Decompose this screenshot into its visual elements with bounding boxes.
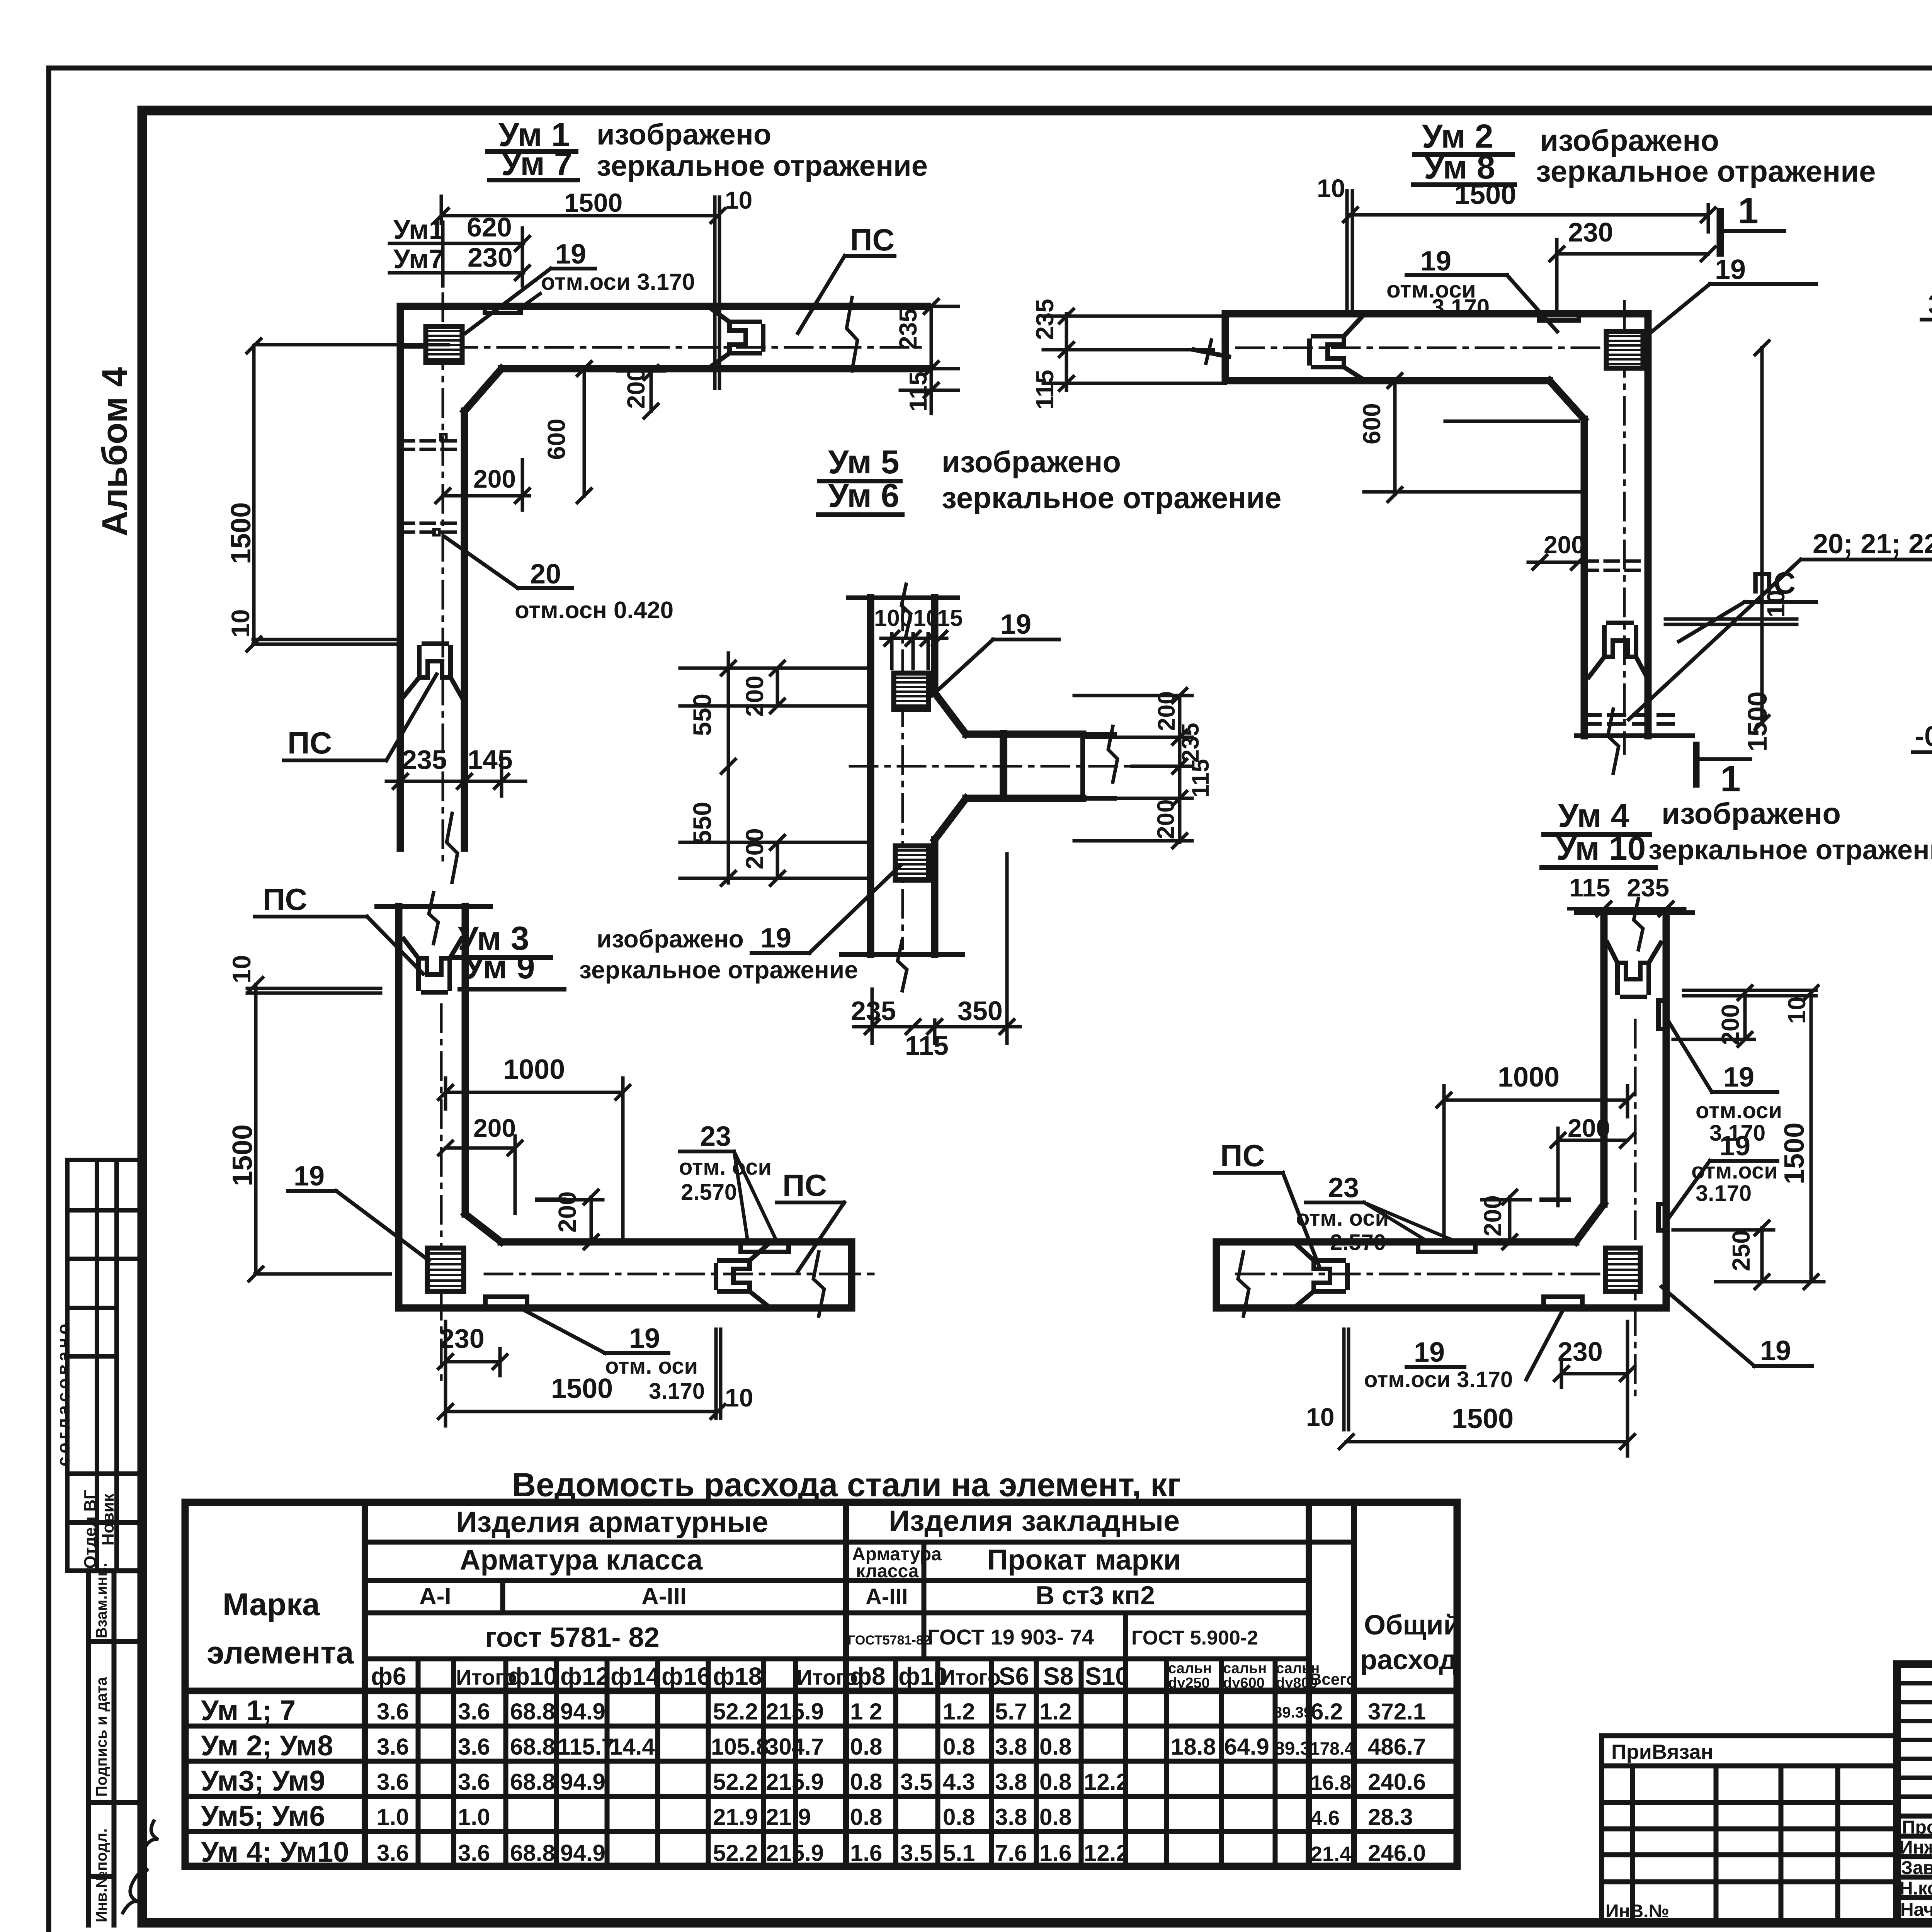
svg-text:Изделия арматурные: Изделия арматурные <box>456 1506 768 1539</box>
Um5 centerline horizontal (through branch) <box>850 765 1182 768</box>
svg-text:550: 550 <box>688 694 716 736</box>
svg-text:Ум1: Ум1 <box>393 214 444 245</box>
table data values row 4 <box>377 1804 1413 1830</box>
svg-text:230: 230 <box>1568 217 1613 247</box>
Um3 wall outline <box>399 906 852 1308</box>
svg-text:3.5: 3.5 <box>900 1840 932 1866</box>
svg-text:10: 10 <box>725 1383 753 1412</box>
svg-text:19: 19 <box>1723 1062 1754 1093</box>
svg-text:1.6: 1.6 <box>850 1840 882 1866</box>
svg-text:ф10: ф10 <box>508 1662 557 1690</box>
svg-text:А-I: А-I <box>419 1583 451 1610</box>
svg-text:Всего: Всего <box>1310 1670 1356 1688</box>
svg-text:2.570: 2.570 <box>681 1180 737 1205</box>
Um1 header labels <box>498 116 928 182</box>
svg-text:4.3: 4.3 <box>943 1769 975 1795</box>
svg-text:3.800: 3.800 <box>1928 289 1932 320</box>
svg-text:А-III: А-III <box>866 1584 908 1609</box>
svg-text:зеркальное отражение: зеркальное отражение <box>597 150 928 182</box>
title block role and name texts <box>1900 1817 1932 1920</box>
svg-text:1.2: 1.2 <box>1039 1699 1071 1725</box>
svg-text:S10: S10 <box>1085 1662 1129 1690</box>
svg-text:105.8: 105.8 <box>711 1734 769 1760</box>
svg-text:115: 115 <box>1569 873 1610 902</box>
svg-text:ф6: ф6 <box>371 1662 406 1690</box>
Um2 dim 10 right lower (gap to PS piece) <box>1665 619 1797 624</box>
Um2 centerline horizontal <box>1236 347 1646 349</box>
svg-text:28.3: 28.3 <box>1368 1804 1413 1830</box>
Um3 embed plate on bottom edge <box>485 1297 527 1307</box>
table header dividers <box>503 1542 1126 1659</box>
Um5 header labels <box>828 444 1282 515</box>
table outer box <box>185 1502 1457 1866</box>
svg-text:21.4: 21.4 <box>1311 1842 1351 1866</box>
Um5 anchor plate lower (hatched) <box>895 846 929 880</box>
svg-text:Подпись и дата: Подпись и дата <box>93 1677 110 1797</box>
Um1 joint square mark 2 <box>434 529 439 535</box>
svg-text:1.0: 1.0 <box>377 1804 409 1830</box>
Um2 construction joint dashes (lower, pointed by 20;21;22) <box>1584 715 1673 724</box>
svg-text:Новик: Новик <box>99 1493 117 1546</box>
svg-text:21.9: 21.9 <box>766 1804 811 1830</box>
Um1 stacked dims Um1 620 / Um7 230 <box>393 212 513 274</box>
svg-text:Отдел ВГ: Отдел ВГ <box>81 1490 100 1569</box>
svg-text:3.6: 3.6 <box>458 1840 490 1866</box>
svg-text:94.9: 94.9 <box>560 1699 605 1725</box>
svg-text:Ум 1; 7: Ум 1; 7 <box>201 1694 296 1726</box>
svg-text:100: 100 <box>874 605 913 631</box>
Um1 anchor plate (hatched) <box>426 327 462 362</box>
svg-text:-0.780: -0.780 <box>1915 721 1932 752</box>
svg-text:3.8: 3.8 <box>995 1804 1027 1830</box>
svg-text:115: 115 <box>1187 759 1214 798</box>
Um4 vertical ext from 1000 dim <box>1442 1117 1446 1242</box>
svg-text:304.7: 304.7 <box>766 1734 824 1760</box>
svg-text:изображено: изображено <box>1662 796 1841 830</box>
Um4 dim 115 235 top <box>1569 873 1669 902</box>
Um3 PS slot detail right <box>716 1243 769 1307</box>
svg-text:класса: класса <box>856 1561 919 1582</box>
svg-text:235: 235 <box>894 308 922 350</box>
svg-text:1500: 1500 <box>1454 179 1516 210</box>
svg-text:зеркальное отражение: зеркальное отражение <box>942 481 1282 515</box>
svg-text:зеркальное отражение: зеркальное отражение <box>1648 835 1932 866</box>
Um1 dim 1500 top <box>434 196 725 223</box>
svg-text:3.170: 3.170 <box>1696 1181 1752 1206</box>
svg-text:246.0: 246.0 <box>1368 1840 1426 1866</box>
svg-text:0.8: 0.8 <box>943 1804 975 1830</box>
Um1 PS wall break mark <box>847 298 857 371</box>
svg-text:200: 200 <box>1153 799 1179 839</box>
Um4 header labels <box>1556 796 1932 867</box>
svg-text:отм.оси 3.170: отм.оси 3.170 <box>541 269 695 295</box>
svg-text:Н.контр.: Н.контр. <box>1900 1878 1932 1899</box>
svg-text:изображено: изображено <box>1540 123 1719 157</box>
Um3 centerline horizontal <box>485 1273 873 1276</box>
svg-text:1000: 1000 <box>503 1054 565 1085</box>
svg-text:0.8: 0.8 <box>943 1734 975 1760</box>
svg-text:3.5: 3.5 <box>900 1769 932 1795</box>
svg-text:сальн: сальн <box>1223 1660 1267 1677</box>
Um4 top cut extension line <box>1577 910 1692 915</box>
Um2 lower funnel slot detail <box>1589 623 1647 677</box>
table row label texts <box>201 1694 349 1868</box>
svg-text:600: 600 <box>1358 403 1386 444</box>
svg-text:14.4: 14.4 <box>610 1734 655 1760</box>
Um4 gap 10 marker bottom-left (double vline) <box>1344 1329 1349 1430</box>
svg-text:зеркальное отражение: зеркальное отражение <box>579 956 858 984</box>
Um5 bottom cut extension <box>841 952 963 957</box>
Um5 top cut extension <box>848 595 957 600</box>
svg-text:Марка: Марка <box>223 1587 320 1622</box>
svg-text:dy600: dy600 <box>1223 1675 1265 1691</box>
svg-text:0.8: 0.8 <box>1039 1734 1071 1760</box>
Um4 section mark 1 (bottom) <box>1693 745 1700 784</box>
svg-text:52.2: 52.2 <box>713 1769 758 1795</box>
Um1 element gap 10 double line (wall right end) <box>715 284 719 388</box>
svg-text:200: 200 <box>1568 1114 1610 1142</box>
svg-text:изображено: изображено <box>942 445 1121 479</box>
svg-text:1500: 1500 <box>564 188 622 218</box>
Um2 PS slot detail (left) <box>1310 315 1364 380</box>
svg-text:1.2: 1.2 <box>943 1699 975 1725</box>
svg-text:178.4: 178.4 <box>1310 1738 1355 1759</box>
svg-text:18.8: 18.8 <box>1171 1734 1216 1760</box>
svg-text:Ум 4: Ум 4 <box>1558 797 1629 834</box>
svg-text:Ум3; Ум9: Ум3; Ум9 <box>201 1765 325 1797</box>
svg-text:94.9: 94.9 <box>560 1840 605 1866</box>
svg-text:68.8: 68.8 <box>510 1734 555 1760</box>
svg-text:20; 21; 22: 20; 21; 22 <box>1813 529 1932 560</box>
svg-text:ИнВ.№: ИнВ.№ <box>1605 1901 1669 1922</box>
svg-text:200: 200 <box>741 828 769 869</box>
svg-text:64.9: 64.9 <box>1224 1734 1269 1760</box>
Um1 lower PS gap 10 double line <box>253 639 398 644</box>
Um4 anchor plate (hatched) <box>1605 1248 1640 1291</box>
Um5 right dims 200 235 115 200 (rotated) <box>1074 689 1192 848</box>
Um1 construction joint dashes 2 <box>400 523 464 532</box>
svg-text:Взам.инв.: Взам.инв. <box>93 1563 110 1638</box>
svg-text:94.9: 94.9 <box>560 1769 605 1795</box>
svg-text:215.9: 215.9 <box>766 1699 824 1725</box>
svg-text:А-III: А-III <box>641 1583 687 1610</box>
svg-text:235: 235 <box>402 745 447 775</box>
svg-text:7.6: 7.6 <box>995 1840 1027 1866</box>
svg-text:19: 19 <box>760 923 791 954</box>
svg-text:3.8: 3.8 <box>995 1734 1027 1760</box>
Um2 construction joint dashes (upper) <box>1584 561 1648 570</box>
Um1 PS slot detail <box>709 307 763 368</box>
svg-text:10: 10 <box>913 605 939 631</box>
Um4 PS slot detail left <box>1295 1243 1347 1307</box>
svg-text:ф8: ф8 <box>850 1662 886 1690</box>
svg-text:19: 19 <box>555 239 586 270</box>
svg-text:23: 23 <box>1328 1172 1359 1203</box>
svg-text:ПС: ПС <box>782 1168 827 1202</box>
Um3 centerline vertical <box>440 1005 443 1379</box>
svg-text:1 2: 1 2 <box>850 1699 882 1725</box>
rotated signature squiggle 1105-89 <box>123 1821 158 1913</box>
svg-text:зеркальное отражение: зеркальное отражение <box>1536 154 1876 188</box>
svg-text:3.6: 3.6 <box>458 1734 490 1760</box>
svg-text:52.2: 52.2 <box>713 1840 758 1866</box>
svg-text:20: 20 <box>530 559 561 590</box>
Um5 bottom break mark <box>898 940 907 991</box>
svg-text:1: 1 <box>1720 759 1741 799</box>
Um2 bottom cut extension line <box>1577 733 1692 738</box>
svg-text:ПС: ПС <box>1751 566 1796 600</box>
svg-text:15: 15 <box>937 605 963 631</box>
Um4 embed plate on right edge lower <box>1658 1204 1666 1230</box>
svg-text:1000: 1000 <box>1498 1062 1560 1093</box>
svg-text:0.8: 0.8 <box>850 1734 882 1760</box>
svg-text:отм.оси 3.170: отм.оси 3.170 <box>1364 1367 1513 1392</box>
Um5 wall outline <box>871 598 1083 954</box>
svg-text:5.7: 5.7 <box>995 1699 1027 1725</box>
svg-text:ГОСТ 5.900-2: ГОСТ 5.900-2 <box>1131 1627 1258 1649</box>
svg-text:изображено: изображено <box>597 118 771 151</box>
svg-text:Итого: Итого <box>940 1665 1001 1689</box>
svg-text:ПС: ПС <box>1220 1138 1265 1173</box>
svg-text:S6: S6 <box>999 1662 1029 1690</box>
svg-text:3.6: 3.6 <box>377 1734 409 1760</box>
svg-text:550: 550 <box>688 802 716 844</box>
Um4 embed plate on inner top edge <box>1418 1243 1475 1252</box>
svg-text:12.2: 12.2 <box>1084 1769 1129 1795</box>
Um3 top cut extension line <box>377 904 491 909</box>
Um4 centerline horizontal <box>1236 1273 1604 1276</box>
svg-text:1500: 1500 <box>1742 691 1772 752</box>
svg-text:10: 10 <box>1317 174 1345 202</box>
svg-text:ПС: ПС <box>287 726 332 760</box>
table data values row 3 <box>377 1769 1426 1795</box>
svg-text:19: 19 <box>1719 1131 1750 1162</box>
left margin lower stamp grid (Inv N podl / Podpis i data / Vzam inv) <box>88 1571 144 1925</box>
Um5 left dims 550 550 <box>680 653 871 885</box>
svg-text:1: 1 <box>1738 190 1759 231</box>
svg-text:4.6: 4.6 <box>1311 1806 1340 1830</box>
Um5 branch end lines <box>1080 734 1085 798</box>
svg-text:68.8: 68.8 <box>510 1769 555 1795</box>
svg-text:2.570: 2.570 <box>1330 1230 1386 1255</box>
svg-text:200: 200 <box>1544 531 1585 559</box>
svg-text:10: 10 <box>1783 997 1811 1024</box>
svg-text:3.6: 3.6 <box>458 1769 490 1795</box>
svg-text:Ведомость расхода стали на эле: Ведомость расхода стали на элемент, кг <box>512 1466 1181 1503</box>
Um1 construction joint dashes 1 <box>400 441 464 449</box>
svg-text:Инж. II к.: Инж. II к. <box>1900 1837 1932 1858</box>
svg-text:гост 5781- 82: гост 5781- 82 <box>485 1622 660 1653</box>
svg-text:16.8: 16.8 <box>1311 1771 1351 1794</box>
svg-text:Ум7: Ум7 <box>393 244 444 274</box>
Um2 PS break mark (left cut) <box>1194 350 1229 357</box>
table column lines <box>418 1659 1275 1866</box>
table data values row 5 <box>377 1840 1426 1866</box>
svg-text:В ст3 кп2: В ст3 кп2 <box>1036 1581 1155 1610</box>
svg-text:5.1: 5.1 <box>943 1840 975 1866</box>
Um1 centerline vertical <box>442 294 444 862</box>
svg-text:200: 200 <box>741 675 769 717</box>
Um3 gap 10 marker right (double vline) <box>716 1329 721 1418</box>
svg-text:Арматура класса: Арматура класса <box>460 1544 703 1576</box>
Um3 upper funnel slot detail <box>404 939 461 992</box>
svg-text:200: 200 <box>1153 691 1180 731</box>
svg-text:сальн: сальн <box>1168 1660 1212 1677</box>
svg-text:Ум5; Ум6: Ум5; Ум6 <box>201 1800 325 1832</box>
Um3 top break mark <box>429 893 438 944</box>
svg-text:1500: 1500 <box>227 1124 258 1186</box>
Um4 embed plate on right edge upper <box>1658 1000 1666 1029</box>
Um3 left dim 1500 and 10 <box>247 978 390 1281</box>
svg-text:19: 19 <box>1000 609 1031 640</box>
svg-text:600: 600 <box>543 418 570 460</box>
svg-text:отм.осн 0.420: отм.осн 0.420 <box>515 597 673 624</box>
svg-text:ПС: ПС <box>263 882 307 917</box>
Um4 centerline vertical <box>1634 1020 1637 1399</box>
Um3 embed plate on inner top edge <box>741 1243 789 1252</box>
svg-text:19: 19 <box>629 1323 660 1354</box>
svg-text:ф16: ф16 <box>662 1662 711 1690</box>
svg-text:68.8: 68.8 <box>510 1840 555 1866</box>
Um5 branch break mark <box>1108 726 1117 782</box>
svg-text:Зав. гр.: Зав. гр. <box>1901 1858 1932 1878</box>
svg-text:19: 19 <box>1760 1335 1791 1366</box>
table data row lines <box>185 1726 1457 1832</box>
svg-text:отм.оси: отм.оси <box>1696 1098 1782 1123</box>
svg-text:Изделия закладные: Изделия закладные <box>889 1505 1180 1537</box>
svg-text:23: 23 <box>700 1121 731 1152</box>
svg-text:486.7: 486.7 <box>1368 1734 1426 1760</box>
table header texts <box>207 1505 1461 1691</box>
Um3 anchor plate (hatched) <box>427 1248 464 1291</box>
svg-text:250: 250 <box>1727 1230 1755 1271</box>
Um5 dim 100 10 15 top <box>874 605 963 631</box>
Um4 short tick inner <box>1542 1197 1569 1202</box>
svg-text:3.170: 3.170 <box>1432 294 1490 320</box>
svg-text:0.8: 0.8 <box>1039 1769 1071 1795</box>
svg-text:200: 200 <box>473 464 516 493</box>
Um1 joint square mark 1 <box>440 434 446 440</box>
Um2 centerline vertical <box>1623 301 1626 753</box>
svg-text:230: 230 <box>1558 1337 1603 1367</box>
Um5 anchor plate upper (hatched) <box>894 673 929 709</box>
svg-text:10: 10 <box>1306 1403 1334 1431</box>
svg-text:0.8: 0.8 <box>850 1804 882 1830</box>
svg-text:3.8: 3.8 <box>995 1769 1027 1795</box>
svg-text:ф14: ф14 <box>611 1662 660 1690</box>
Um3 short tick inner <box>537 1197 564 1202</box>
table header horizontal lines <box>185 1542 1457 1691</box>
svg-text:1500: 1500 <box>551 1373 613 1404</box>
svg-text:10: 10 <box>725 186 752 214</box>
svg-text:Общий: Общий <box>1364 1610 1461 1641</box>
svg-text:ф18: ф18 <box>713 1662 762 1690</box>
svg-text:3.6: 3.6 <box>377 1769 409 1795</box>
Um4 wall break mark left <box>1238 1252 1249 1316</box>
svg-text:1500: 1500 <box>226 502 257 564</box>
svg-text:19: 19 <box>1420 246 1451 277</box>
svg-text:620: 620 <box>467 212 512 242</box>
svg-text:ПС: ПС <box>850 223 895 257</box>
svg-text:3.6: 3.6 <box>458 1699 490 1725</box>
svg-text:ф12: ф12 <box>560 1662 609 1690</box>
svg-text:6.2: 6.2 <box>1311 1699 1343 1725</box>
Um4 wall outline <box>1216 913 1666 1308</box>
svg-text:19: 19 <box>1715 254 1746 285</box>
svg-text:1500: 1500 <box>1452 1403 1514 1434</box>
svg-text:89.39: 89.39 <box>1274 1704 1312 1721</box>
svg-text:Ум 9: Ум 9 <box>464 949 535 986</box>
Um2 header labels <box>1422 118 1876 188</box>
svg-text:10: 10 <box>226 609 255 638</box>
svg-text:отм. оси: отм. оси <box>605 1354 698 1379</box>
svg-text:Провер: Провер <box>1902 1817 1932 1838</box>
svg-text:Ум 5: Ум 5 <box>828 444 900 481</box>
Um5 left dims 200 200 <box>770 661 784 885</box>
svg-text:240.6: 240.6 <box>1368 1769 1426 1795</box>
title block upper thin rows <box>1897 1683 1932 1797</box>
svg-text:21.9: 21.9 <box>713 1804 758 1830</box>
Um1 centerline horizontal <box>402 346 925 349</box>
Um1 dim 10 top (gap marker) <box>715 197 719 307</box>
Um1 embed plate on top edge <box>485 306 520 313</box>
svg-text:115.7: 115.7 <box>558 1734 614 1760</box>
svg-text:235: 235 <box>1627 873 1669 902</box>
svg-text:расход: расход <box>1360 1645 1457 1675</box>
svg-text:0.8: 0.8 <box>1039 1804 1071 1830</box>
svg-text:89.3: 89.3 <box>1274 1738 1310 1759</box>
svg-text:19: 19 <box>1414 1337 1445 1368</box>
Um2 embed plate on top edge <box>1539 314 1579 320</box>
svg-text:1.6: 1.6 <box>1039 1840 1071 1866</box>
Um4 top break mark <box>1634 899 1643 950</box>
Um4 dim 10 top right (double hline) <box>1684 990 1816 996</box>
svg-text:ПриВязан: ПриВязан <box>1611 1740 1713 1764</box>
Um2 wall outline <box>1225 314 1648 736</box>
svg-text:200: 200 <box>622 367 650 409</box>
title block signature rows <box>1897 1816 1932 1898</box>
table main vertical dividers <box>365 1502 1354 1866</box>
svg-text:согласовано: согласовано <box>53 1321 73 1466</box>
Um1 lower PS slot detail (funnel) <box>403 644 462 698</box>
svg-text:1500: 1500 <box>1779 1122 1810 1184</box>
Um3 header labels <box>458 920 858 986</box>
Um1 lower wall break mark <box>447 813 457 882</box>
svg-text:Итого: Итого <box>797 1665 858 1689</box>
svg-text:3.170: 3.170 <box>649 1379 705 1404</box>
Um2 anchor plate (hatched) <box>1606 332 1643 368</box>
Um4 upper funnel slot detail <box>1607 943 1661 997</box>
svg-text:10: 10 <box>227 955 256 983</box>
svg-text:1.0: 1.0 <box>458 1804 490 1830</box>
svg-text:0.8: 0.8 <box>850 1769 882 1795</box>
svg-text:215.9: 215.9 <box>766 1840 824 1866</box>
svg-text:230: 230 <box>468 242 513 272</box>
Um1 dim 235 145 bottom <box>402 745 513 775</box>
svg-text:145: 145 <box>468 745 513 775</box>
svg-text:68.8: 68.8 <box>510 1699 555 1725</box>
svg-text:200: 200 <box>473 1114 516 1142</box>
Um2 dim 10 top (gap marker) <box>1347 191 1352 313</box>
Um1 left dim 1500 and 10 <box>247 339 448 651</box>
svg-text:изображено: изображено <box>597 925 744 953</box>
svg-text:Инв.№подл.: Инв.№подл. <box>93 1828 110 1922</box>
Um5 centerline vertical <box>901 603 904 949</box>
svg-text:215.9: 215.9 <box>766 1769 824 1795</box>
svg-text:отм. оси: отм. оси <box>679 1155 772 1180</box>
svg-text:3.6: 3.6 <box>377 1840 409 1866</box>
svg-text:19: 19 <box>294 1161 325 1192</box>
